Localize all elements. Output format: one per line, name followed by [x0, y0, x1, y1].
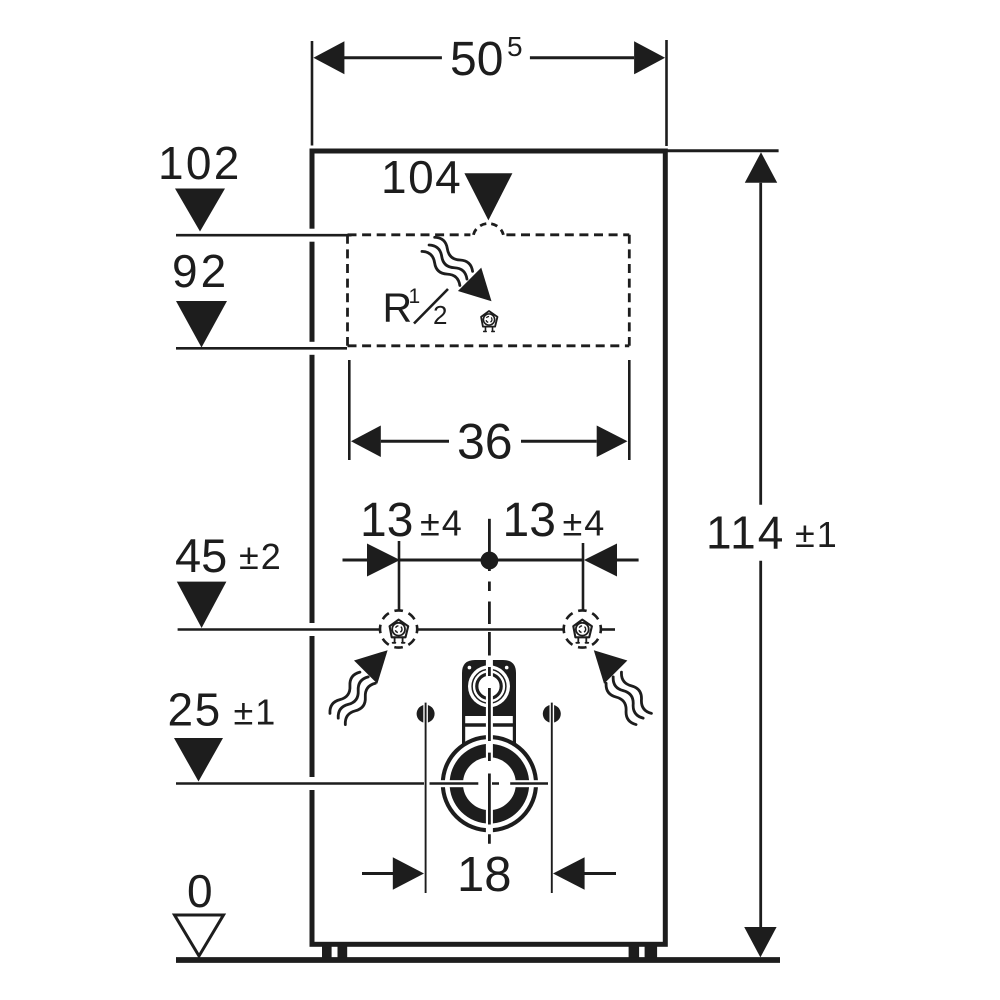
svg-text:92: 92 — [172, 245, 229, 297]
svg-text:±2: ±2 — [239, 536, 283, 577]
svg-text:104: 104 — [381, 151, 462, 203]
svg-text:±1: ±1 — [234, 692, 278, 733]
svg-text:50: 50 — [450, 33, 503, 86]
svg-text:±4: ±4 — [563, 503, 607, 544]
svg-text:2: 2 — [433, 300, 447, 330]
svg-text:45: 45 — [175, 529, 227, 582]
svg-text:13: 13 — [503, 494, 556, 547]
svg-text:18: 18 — [457, 848, 512, 902]
svg-text:±4: ±4 — [420, 503, 464, 544]
svg-text:25: 25 — [168, 684, 222, 736]
svg-text:114: 114 — [706, 507, 785, 559]
svg-text:0: 0 — [187, 865, 213, 917]
svg-text:13: 13 — [360, 494, 413, 547]
svg-text:102: 102 — [158, 137, 242, 189]
svg-text:1: 1 — [409, 285, 421, 308]
svg-text:5: 5 — [507, 31, 523, 62]
svg-text:36: 36 — [457, 414, 513, 470]
svg-text:±1: ±1 — [795, 514, 839, 555]
